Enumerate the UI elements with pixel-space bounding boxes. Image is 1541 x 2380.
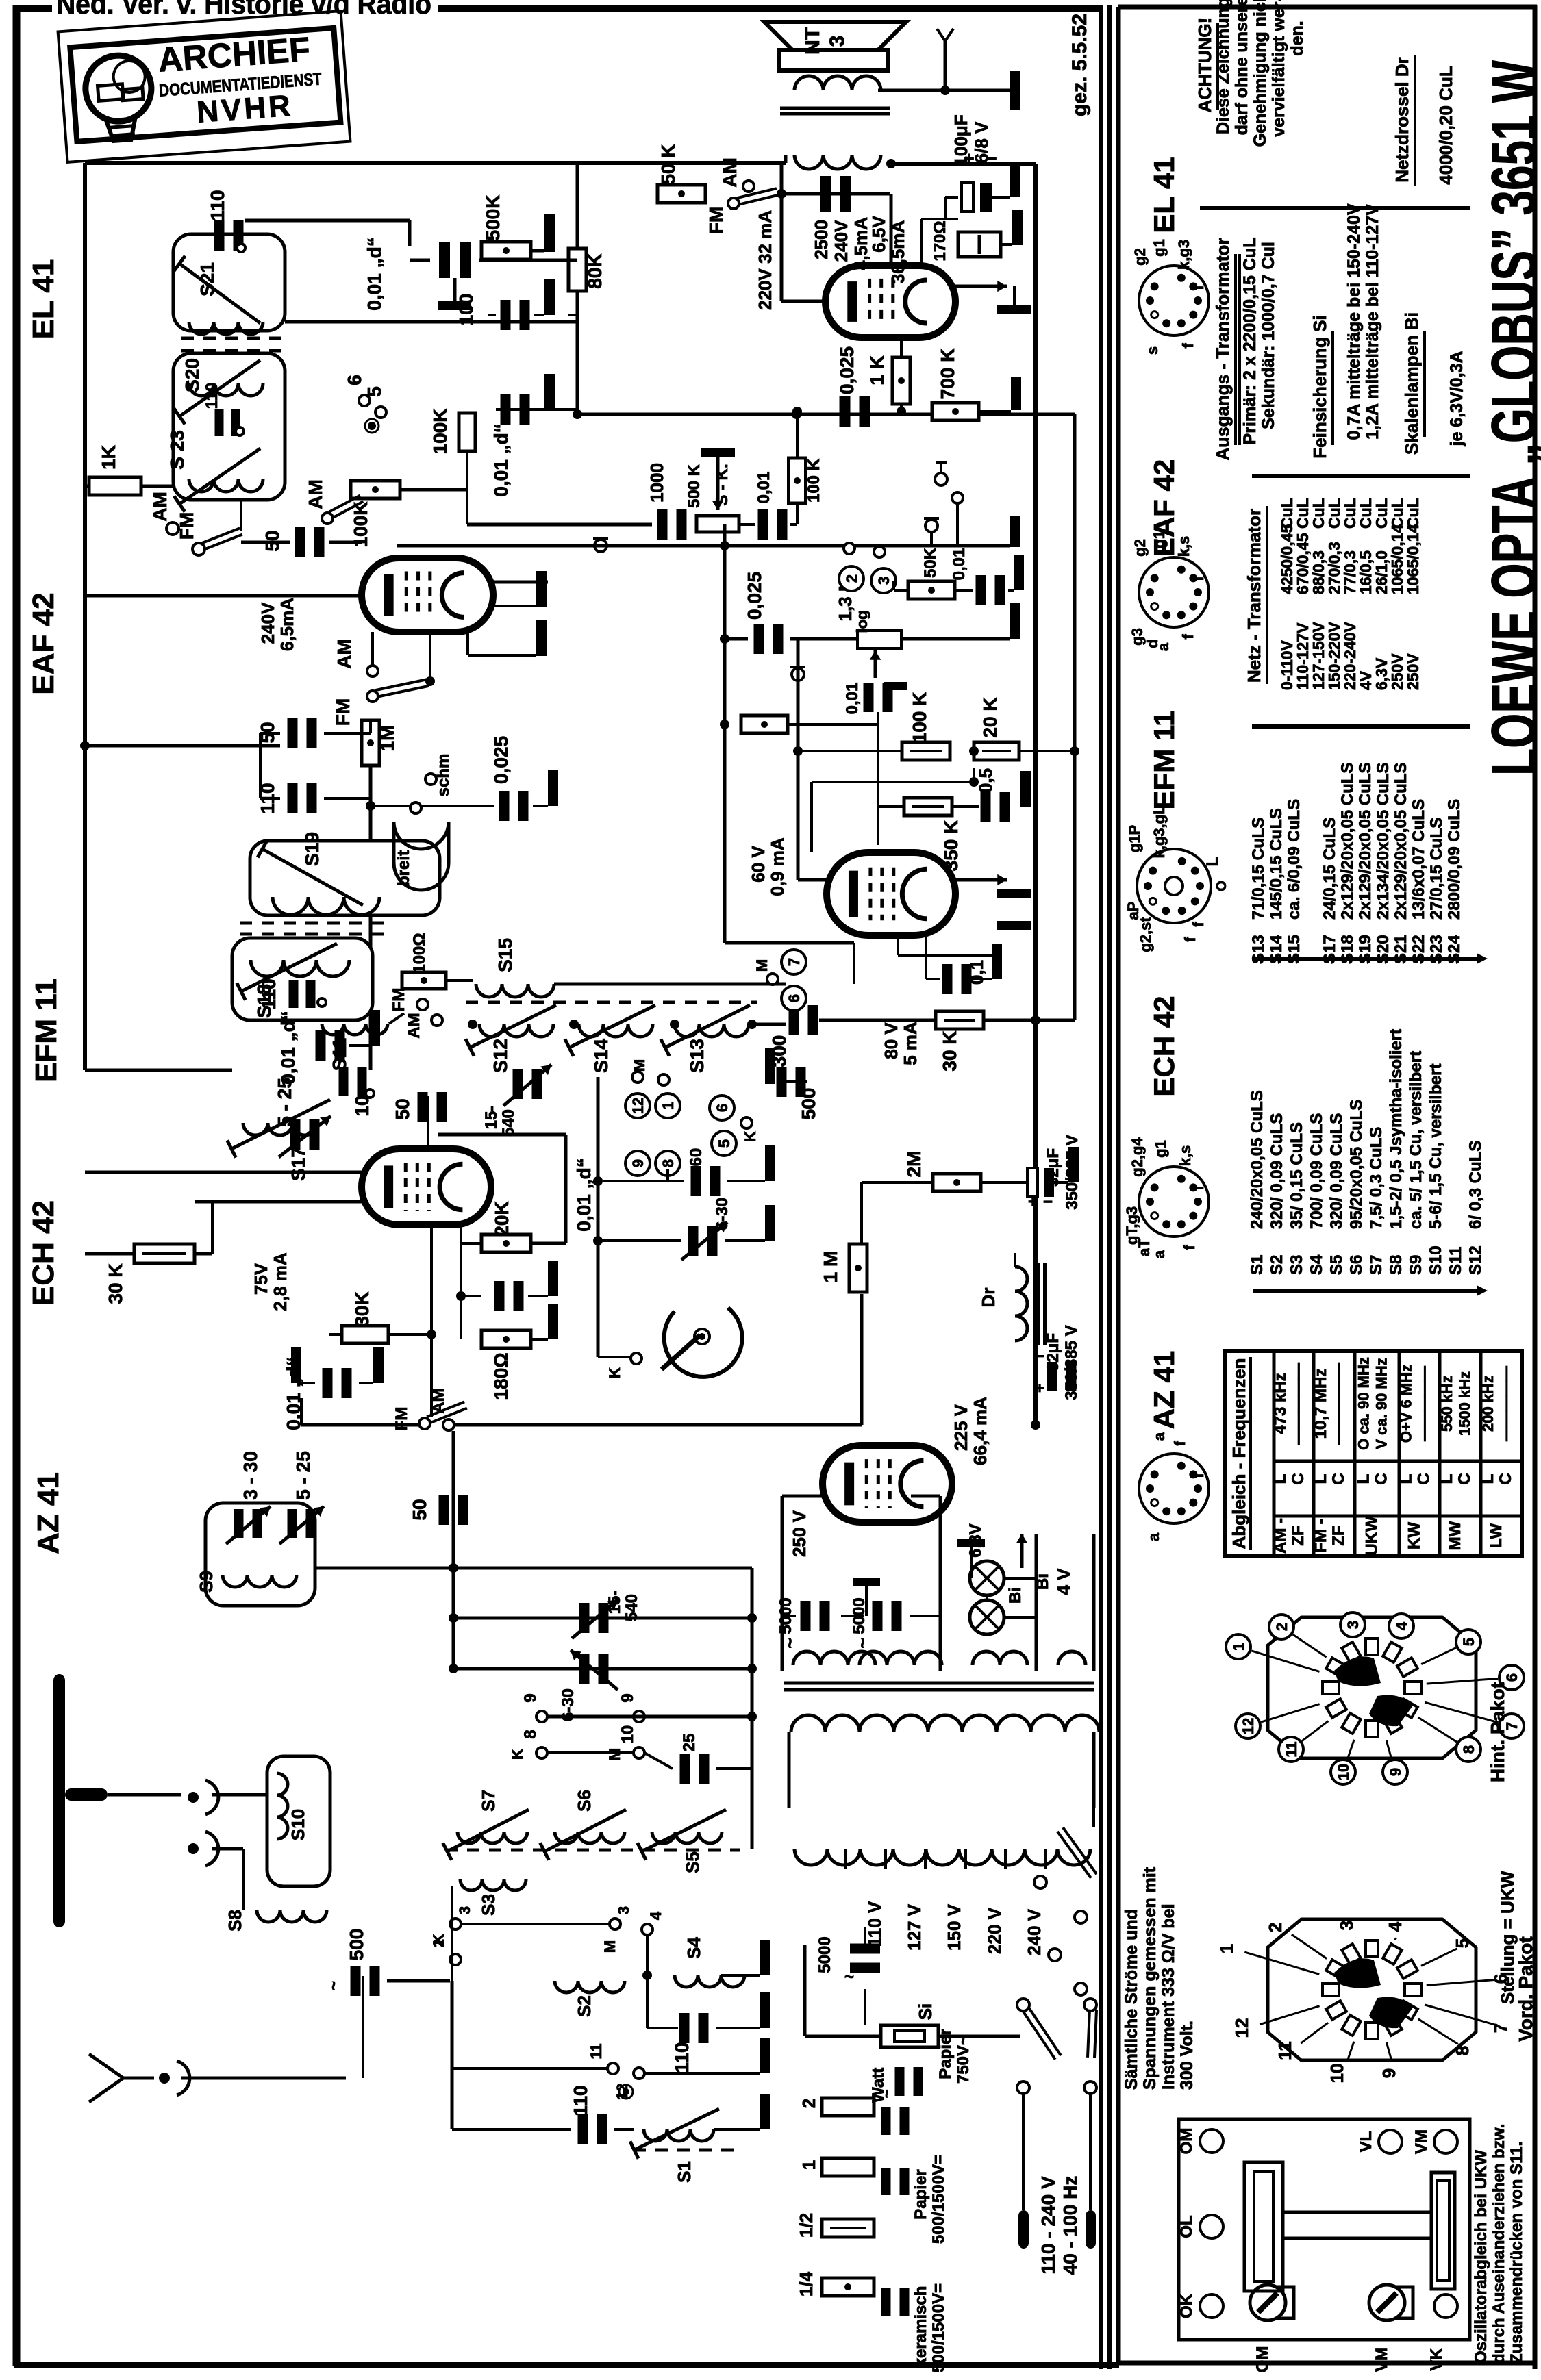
- svg-text:0,01: 0,01: [755, 472, 773, 504]
- svg-text:20 K: 20 K: [979, 697, 1001, 737]
- svg-text:2x129/20x0,05 CuLS: 2x129/20x0,05 CuLS: [1338, 763, 1357, 920]
- svg-text:32μF: 32μF: [1044, 1333, 1062, 1371]
- svg-text:320/ 0,09 CuLS: 320/ 0,09 CuLS: [1268, 1113, 1286, 1229]
- svg-text:g2,g4: g2,g4: [1129, 1137, 1146, 1177]
- svg-text:FM: FM: [390, 988, 408, 1012]
- svg-text:AZ 41: AZ 41: [1148, 1351, 1180, 1429]
- svg-text:a: a: [1145, 1532, 1162, 1541]
- svg-text:8: 8: [660, 1159, 677, 1167]
- svg-text:C: C: [1373, 1473, 1391, 1484]
- svg-text:3 - 30: 3 - 30: [240, 1451, 261, 1500]
- svg-text:3: 3: [875, 577, 892, 585]
- svg-text:Netzdrossel Dr: Netzdrossel Dr: [1392, 57, 1412, 183]
- svg-text:95/20x0,05 CuLS: 95/20x0,05 CuLS: [1347, 1100, 1366, 1229]
- svg-text:35/ 0,15 CuLS: 35/ 0,15 CuLS: [1288, 1122, 1306, 1229]
- svg-text:30K: 30K: [351, 1291, 373, 1326]
- svg-text:12: 12: [1231, 2018, 1252, 2038]
- svg-text:C: C: [1455, 1473, 1474, 1484]
- svg-text:110 V: 110 V: [864, 1901, 885, 1947]
- svg-text:O+V 6 MHz: O+V 6 MHz: [1398, 1365, 1415, 1443]
- svg-text:NVHR: NVHR: [196, 89, 295, 129]
- svg-text:S6: S6: [1347, 1255, 1366, 1275]
- svg-text:250V: 250V: [1404, 653, 1422, 690]
- svg-text:0,01 „d“: 0,01 „d“: [490, 423, 512, 496]
- svg-text:EFM 11: EFM 11: [29, 978, 63, 1083]
- svg-text:AZ 41: AZ 41: [32, 1472, 65, 1554]
- svg-text:110: 110: [570, 2085, 591, 2116]
- svg-text:4: 4: [647, 1911, 664, 1920]
- svg-text:1M: 1M: [377, 725, 398, 752]
- svg-text:0,025: 0,025: [744, 572, 765, 620]
- svg-text:320/ 0,09 CuLS: 320/ 0,09 CuLS: [1327, 1113, 1346, 1229]
- svg-text:100μF: 100μF: [951, 114, 971, 166]
- svg-text:66,4 mA: 66,4 mA: [970, 1397, 990, 1465]
- svg-text:9: 9: [618, 1693, 637, 1702]
- svg-text:ca. 6/0,09 CuLS: ca. 6/0,09 CuLS: [1285, 799, 1303, 920]
- svg-text:127 V: 127 V: [904, 1903, 925, 1951]
- svg-text:0,025: 0,025: [490, 736, 512, 784]
- svg-text:S8: S8: [1387, 1255, 1405, 1275]
- svg-text:100 K: 100 K: [909, 692, 930, 744]
- svg-text:7: 7: [786, 958, 803, 966]
- svg-text:1/4: 1/4: [796, 2271, 816, 2296]
- svg-text:9: 9: [1379, 2068, 1399, 2078]
- svg-text:k,g3: k,g3: [1175, 240, 1192, 270]
- svg-text:S20: S20: [181, 358, 203, 392]
- svg-text:S3: S3: [1288, 1255, 1306, 1275]
- svg-text:AM: AM: [305, 479, 326, 509]
- svg-text:220 V: 220 V: [984, 1907, 1005, 1954]
- svg-text:ca. 5/ 1,5 Cu, versilbert: ca. 5/ 1,5 Cu, versilbert: [1407, 1051, 1425, 1229]
- svg-text:C: C: [1329, 1473, 1348, 1484]
- svg-text:170Ω: 170Ω: [931, 220, 949, 261]
- svg-text:1,2A mittelträge bei 110-127V: 1,2A mittelträge bei 110-127V: [1363, 204, 1382, 440]
- svg-text:240/20x0,05 CuLS: 240/20x0,05 CuLS: [1248, 1090, 1266, 1229]
- svg-text:13/6x0,07 CuLS: 13/6x0,07 CuLS: [1410, 799, 1428, 920]
- svg-text:6: 6: [344, 375, 365, 385]
- svg-text:S17: S17: [288, 1147, 309, 1181]
- svg-text:f: f: [1181, 1245, 1198, 1250]
- svg-text:VM: VM: [1373, 2347, 1391, 2372]
- svg-text:S4: S4: [1307, 1254, 1326, 1275]
- svg-text:145/0,15 CuLS: 145/0,15 CuLS: [1267, 808, 1286, 920]
- svg-text:S11: S11: [329, 1038, 350, 1071]
- svg-text:schm: schm: [434, 754, 453, 797]
- svg-text:OK: OK: [1177, 2293, 1196, 2318]
- svg-text:M: M: [753, 959, 770, 972]
- svg-text:S13: S13: [686, 1039, 707, 1073]
- svg-text:0,025: 0,025: [836, 346, 857, 394]
- svg-text:FM: FM: [392, 1407, 411, 1431]
- svg-text:L: L: [1203, 857, 1222, 867]
- svg-text:6-30: 6-30: [713, 1198, 731, 1230]
- svg-text:25: 25: [680, 1734, 699, 1752]
- svg-text:LOEWE OPTA „GLOBUS” 3651 W: LOEWE OPTA „GLOBUS” 3651 W: [1478, 60, 1541, 776]
- svg-text:700/ 0,09 CuLS: 700/ 0,09 CuLS: [1307, 1113, 1326, 1229]
- svg-text:27/0,15 CuLS: 27/0,15 CuLS: [1427, 818, 1446, 920]
- svg-text:1065/0,14: 1065/0,14: [1404, 524, 1422, 594]
- svg-text:500K: 500K: [482, 195, 503, 241]
- svg-text:FM: FM: [705, 207, 727, 234]
- svg-text:110: 110: [207, 190, 228, 220]
- svg-text:FM: FM: [332, 698, 353, 726]
- svg-text:6,5mA: 6,5mA: [277, 598, 297, 651]
- svg-text:250 V: 250 V: [789, 1510, 810, 1557]
- svg-text:a: a: [1151, 1432, 1168, 1441]
- svg-text:8: 8: [521, 1730, 540, 1738]
- svg-text:300: 300: [768, 1035, 790, 1067]
- svg-text:+: +: [1036, 1380, 1044, 1397]
- svg-text:S1: S1: [674, 2161, 694, 2183]
- svg-text:4000/0,20 CuL: 4000/0,20 CuL: [1436, 66, 1456, 185]
- svg-text:O ca. 90 MHz: O ca. 90 MHz: [1355, 1357, 1373, 1450]
- svg-text:30 K: 30 K: [939, 1030, 960, 1071]
- svg-text:S7: S7: [1367, 1255, 1386, 1275]
- svg-text:g2,st: g2,st: [1137, 917, 1154, 952]
- svg-text:K: K: [509, 1749, 526, 1760]
- svg-text:L: L: [1355, 1474, 1373, 1484]
- svg-text:180Ω: 180Ω: [490, 1352, 512, 1400]
- svg-text:2: 2: [799, 2099, 819, 2108]
- svg-text:75V: 75V: [251, 1263, 271, 1295]
- svg-text:540: 540: [499, 1109, 518, 1137]
- svg-text:2: 2: [1273, 1623, 1290, 1631]
- svg-text:Ausgangs - Transformator: Ausgangs - Transformator: [1212, 238, 1233, 460]
- svg-text:S1: S1: [1248, 1255, 1266, 1275]
- svg-text:Sämtliche Ströme und: Sämtliche Ströme und: [1122, 1909, 1141, 2090]
- svg-text:f: f: [1190, 1473, 1207, 1478]
- svg-text:durch Auseinanderziehen bzw.: durch Auseinanderziehen bzw.: [1490, 2124, 1508, 2364]
- svg-text:Hint. Pakot: Hint. Pakot: [1487, 1682, 1508, 1782]
- svg-text:VM: VM: [1412, 2129, 1431, 2154]
- svg-text:S2: S2: [1268, 1255, 1286, 1275]
- svg-text:O: O: [1214, 881, 1229, 891]
- svg-text:3: 3: [1336, 1921, 1357, 1930]
- svg-text:0,01 „d“: 0,01 „d“: [364, 237, 385, 310]
- svg-text:15-: 15-: [605, 1591, 624, 1615]
- svg-text:—————: —————: [1497, 1366, 1514, 1441]
- svg-text:—————: —————: [1416, 1366, 1433, 1441]
- svg-text:11: 11: [1275, 2041, 1295, 2060]
- svg-text:12: 12: [629, 1098, 647, 1114]
- svg-text:EL 41: EL 41: [1148, 157, 1180, 233]
- svg-text:5 - 25: 5 - 25: [292, 1451, 314, 1500]
- svg-text:50: 50: [392, 1098, 413, 1119]
- svg-text:6,3V: 6,3V: [966, 1523, 985, 1557]
- svg-text:100K: 100K: [350, 502, 371, 548]
- svg-text:S12: S12: [490, 1039, 511, 1073]
- svg-text:110 - 240 V: 110 - 240 V: [1038, 2176, 1059, 2275]
- svg-text:3: 3: [826, 36, 849, 47]
- svg-text:Abgleich - Frequenzen: Abgleich - Frequenzen: [1229, 1358, 1249, 1549]
- svg-text:S12: S12: [1466, 1245, 1485, 1275]
- svg-text:700 K: 700 K: [937, 349, 958, 400]
- svg-text:darf ohne unsere: darf ohne unsere: [1232, 0, 1251, 135]
- svg-text:2: 2: [430, 1939, 447, 1947]
- svg-text:1K: 1K: [98, 445, 119, 470]
- svg-text:—————: —————: [1289, 1363, 1307, 1445]
- svg-text:20K: 20K: [491, 1201, 512, 1236]
- svg-text:1/2: 1/2: [796, 2213, 816, 2238]
- svg-text:7,5/ 0,3 CuLS: 7,5/ 0,3 CuLS: [1367, 1127, 1386, 1229]
- svg-text:240V: 240V: [831, 220, 851, 262]
- svg-text:30 K: 30 K: [105, 1263, 126, 1304]
- svg-text:L: L: [1271, 1474, 1290, 1484]
- svg-text:10,7 MHz: 10,7 MHz: [1312, 1369, 1330, 1439]
- svg-text:k,s: k,s: [1177, 1145, 1194, 1167]
- svg-text:S6: S6: [574, 1790, 594, 1812]
- svg-text:S19: S19: [301, 832, 323, 866]
- svg-text:6: 6: [786, 994, 803, 1002]
- svg-text:f: f: [1190, 1185, 1207, 1191]
- svg-text:2x134/20x0,05 CuLS: 2x134/20x0,05 CuLS: [1374, 763, 1392, 920]
- svg-text:f: f: [1179, 634, 1197, 640]
- svg-text:300 Volt.: 300 Volt.: [1177, 2021, 1197, 2090]
- svg-text:2x129/20x0,05 CuLS: 2x129/20x0,05 CuLS: [1392, 763, 1410, 920]
- svg-text:S11: S11: [1446, 1247, 1465, 1275]
- svg-text:5: 5: [716, 1139, 733, 1148]
- svg-text:5000: 5000: [816, 1936, 834, 1973]
- svg-text:S15: S15: [494, 938, 516, 972]
- svg-text:M: M: [631, 1059, 648, 1072]
- svg-text:S5: S5: [682, 1851, 703, 1873]
- svg-text:6: 6: [714, 1104, 731, 1112]
- svg-text:AM -: AM -: [1271, 1518, 1290, 1554]
- svg-text:f: f: [1190, 576, 1207, 581]
- svg-text:S10: S10: [1427, 1245, 1445, 1275]
- svg-text:4: 4: [1385, 1921, 1405, 1932]
- svg-text:f: f: [1190, 285, 1207, 290]
- svg-text:Instrument 333 Ω/V bei: Instrument 333 Ω/V bei: [1159, 1903, 1178, 2090]
- svg-text:4: 4: [1393, 1621, 1410, 1630]
- svg-text:V ca. 90 MHz: V ca. 90 MHz: [1373, 1358, 1390, 1449]
- svg-text:Spannungen gemessen mit: Spannungen gemessen mit: [1140, 1866, 1160, 2090]
- svg-text:100K: 100K: [429, 409, 451, 455]
- svg-text:Bi: Bi: [1006, 1587, 1025, 1604]
- svg-text:50: 50: [409, 1499, 430, 1520]
- svg-text:500: 500: [346, 1929, 367, 1961]
- svg-text:C: C: [1289, 1473, 1307, 1484]
- svg-text:breit: breit: [394, 850, 413, 886]
- svg-text:~: ~: [878, 2089, 895, 2098]
- svg-text:Diese Zeichnung: Diese Zeichnung: [1214, 0, 1233, 134]
- svg-text:12: 12: [1240, 1718, 1257, 1734]
- svg-text:S4: S4: [684, 1937, 704, 1959]
- svg-text:0,1: 0,1: [966, 960, 987, 985]
- svg-text:Vord. Pakot: Vord. Pakot: [1515, 1936, 1536, 2042]
- svg-text:240V: 240V: [258, 602, 278, 644]
- svg-text:K: K: [742, 1131, 759, 1142]
- svg-text:3: 3: [1344, 1621, 1362, 1629]
- svg-text:S7: S7: [478, 1790, 499, 1812]
- svg-text:M: M: [601, 1940, 618, 1953]
- svg-text:60: 60: [687, 1148, 705, 1167]
- svg-text:C: C: [1415, 1473, 1433, 1484]
- svg-text:2: 2: [843, 574, 860, 583]
- svg-text:2x129/20x0,05 CuLS: 2x129/20x0,05 CuLS: [1356, 763, 1375, 920]
- svg-text:5: 5: [1452, 1938, 1473, 1948]
- svg-text:60 V: 60 V: [748, 846, 768, 883]
- svg-text:AM: AM: [334, 639, 355, 669]
- svg-text:2M: 2M: [903, 1151, 925, 1178]
- svg-text:je 6,3V/0,3A: je 6,3V/0,3A: [1447, 351, 1466, 447]
- svg-text:−: −: [1043, 1193, 1053, 1211]
- svg-text:5 mA: 5 mA: [900, 1022, 920, 1065]
- svg-text:Si: Si: [915, 2003, 936, 2021]
- svg-text:g1: g1: [1152, 1140, 1169, 1158]
- svg-text:110: 110: [258, 978, 279, 1009]
- svg-text:1000: 1000: [647, 463, 667, 503]
- svg-text:500 K: 500 K: [685, 464, 703, 508]
- svg-text:Sekundär: 1000/0,7 Cul: Sekundär: 1000/0,7 Cul: [1259, 242, 1278, 429]
- svg-text:3: 3: [456, 1906, 473, 1914]
- svg-text:L: L: [1438, 1474, 1456, 1484]
- svg-text:Netz - Transformator: Netz - Transformator: [1244, 509, 1264, 683]
- svg-text:−: −: [1036, 1347, 1044, 1365]
- svg-text:EAF 42: EAF 42: [27, 592, 60, 694]
- svg-text:S21: S21: [197, 262, 218, 296]
- svg-text:k,g3,gL: k,g3,gL: [1151, 805, 1168, 858]
- svg-text:K: K: [606, 1367, 623, 1378]
- svg-text:ZF: ZF: [1329, 1526, 1348, 1545]
- svg-text:1: 1: [799, 2160, 819, 2170]
- svg-text:1500 kHz: 1500 kHz: [1456, 1371, 1473, 1436]
- svg-text:S9: S9: [196, 1571, 216, 1593]
- svg-text:OL: OL: [1177, 2215, 1196, 2238]
- svg-text:g2: g2: [1131, 248, 1149, 266]
- svg-text:8: 8: [1452, 2046, 1473, 2055]
- svg-text:~: ~: [852, 1638, 873, 1648]
- svg-text:L: L: [1312, 1474, 1330, 1484]
- svg-text:ZF: ZF: [1289, 1526, 1307, 1545]
- svg-text:~: ~: [844, 1968, 854, 1986]
- svg-text:S8: S8: [225, 1910, 245, 1932]
- svg-text:1: 1: [660, 1102, 677, 1110]
- svg-text:~: ~: [779, 1638, 800, 1648]
- svg-text:110: 110: [671, 2042, 692, 2073]
- svg-text:MW: MW: [1446, 1521, 1464, 1550]
- svg-text:a: a: [1151, 1250, 1168, 1258]
- svg-text:keramisch: keramisch: [912, 2286, 930, 2368]
- svg-text:80K: 80K: [584, 253, 605, 288]
- svg-text:225 V: 225 V: [951, 1404, 971, 1451]
- svg-text:0,5: 0,5: [975, 768, 996, 793]
- svg-text:500: 500: [798, 1088, 819, 1120]
- svg-text:200 kHz: 200 kHz: [1479, 1376, 1496, 1432]
- svg-text:6/ 0,3 CuLS: 6/ 0,3 CuLS: [1466, 1141, 1485, 1229]
- svg-text:VK: VK: [1427, 2348, 1446, 2371]
- svg-text:5: 5: [1460, 1638, 1477, 1646]
- svg-text:1: 1: [1216, 1944, 1237, 1953]
- svg-text:5 - 25: 5 - 25: [274, 1078, 295, 1127]
- svg-text:AM: AM: [149, 492, 171, 522]
- svg-text:Papier: Papier: [936, 2029, 955, 2079]
- svg-text:ACHTUNG!: ACHTUNG!: [1194, 18, 1215, 113]
- svg-text:1 M: 1 M: [820, 1251, 841, 1283]
- svg-text:f: f: [1190, 922, 1207, 927]
- svg-text:1,5-2/ 0,5 Jsymtha-isoliert: 1,5-2/ 0,5 Jsymtha-isoliert: [1387, 1029, 1405, 1229]
- svg-text:~: ~: [325, 1981, 343, 1990]
- svg-text:9: 9: [1387, 1768, 1404, 1776]
- svg-text:24/0,15 CuLS: 24/0,15 CuLS: [1320, 818, 1339, 920]
- svg-text:g1: g1: [1151, 239, 1168, 257]
- svg-text:g1: g1: [1151, 531, 1168, 548]
- svg-text:2500: 2500: [811, 220, 831, 259]
- svg-text:Genehmigung nicht: Genehmigung nicht: [1251, 0, 1270, 147]
- svg-text:9: 9: [629, 1159, 647, 1167]
- svg-text:L: L: [1397, 1474, 1416, 1484]
- svg-text:4 V: 4 V: [1053, 1568, 1074, 1595]
- svg-text:EFM 11: EFM 11: [1148, 711, 1180, 810]
- svg-text:Zusammendrücken von S11.: Zusammendrücken von S11.: [1507, 2142, 1526, 2364]
- svg-text:LW: LW: [1487, 1523, 1505, 1548]
- svg-text:gez. 5.5.52: gez. 5.5.52: [1068, 14, 1091, 116]
- svg-text:6: 6: [1503, 1673, 1520, 1682]
- svg-text:3: 3: [615, 1906, 632, 1914]
- svg-text:8: 8: [1460, 1745, 1477, 1754]
- svg-text:50 K: 50 K: [657, 144, 679, 184]
- svg-text:150 V: 150 V: [944, 1903, 964, 1951]
- svg-text:S2: S2: [574, 1995, 594, 2017]
- svg-text:10: 10: [1327, 2064, 1347, 2084]
- svg-text:ECH 42: ECH 42: [27, 1200, 60, 1306]
- svg-text:473 kHz: 473 kHz: [1271, 1373, 1290, 1434]
- svg-text:Skalenlampen Bi: Skalenlampen Bi: [1401, 312, 1422, 455]
- svg-text:1: 1: [1230, 1643, 1247, 1651]
- svg-text:EL 41: EL 41: [27, 259, 60, 340]
- svg-text:220V 32 mA: 220V 32 mA: [755, 210, 775, 310]
- svg-text:CuL: CuL: [1404, 498, 1422, 529]
- svg-text:500/1500V=: 500/1500V=: [929, 2283, 948, 2372]
- svg-text:2800/0,09 CuLS: 2800/0,09 CuLS: [1445, 799, 1464, 920]
- svg-text:f: f: [1181, 937, 1199, 942]
- svg-text:5: 5: [364, 386, 385, 397]
- svg-text:s: s: [1144, 346, 1161, 355]
- svg-text:2: 2: [1265, 1923, 1286, 1932]
- svg-text:100Ω: 100Ω: [410, 933, 429, 973]
- svg-text:VL: VL: [1357, 2131, 1375, 2153]
- svg-text:f: f: [1179, 343, 1197, 349]
- svg-text:S - K.: S - K.: [713, 464, 731, 505]
- svg-text:350 K: 350 K: [940, 820, 962, 872]
- svg-text:750V~: 750V~: [954, 2036, 973, 2084]
- svg-text:FM -: FM -: [1312, 1519, 1330, 1552]
- svg-text:40 - 100 Hz: 40 - 100 Hz: [1060, 2176, 1081, 2275]
- svg-text:0,7A mittelträge bei 150-240V: 0,7A mittelträge bei 150-240V: [1344, 203, 1364, 440]
- svg-text:S14: S14: [590, 1039, 612, 1073]
- svg-text:9: 9: [521, 1693, 540, 1702]
- svg-text:240 V: 240 V: [1024, 1908, 1044, 1955]
- svg-text:S 23: S 23: [166, 430, 188, 470]
- svg-text:k,s: k,s: [1175, 536, 1192, 557]
- svg-text:OM: OM: [1177, 2128, 1196, 2155]
- svg-text:1 K: 1 K: [866, 355, 888, 385]
- svg-text:Papier: Papier: [912, 2169, 930, 2219]
- svg-text:AM: AM: [719, 157, 740, 188]
- svg-text:100 K: 100 K: [805, 458, 823, 503]
- svg-text:S3: S3: [478, 1894, 499, 1916]
- svg-text:100: 100: [455, 294, 477, 326]
- svg-text:110: 110: [203, 383, 221, 409]
- svg-text:71/0,15 CuLS: 71/0,15 CuLS: [1249, 818, 1268, 920]
- svg-text:UKW: UKW: [1363, 1516, 1381, 1556]
- svg-text:550 kHz: 550 kHz: [1438, 1376, 1455, 1432]
- svg-text:50K: 50K: [921, 547, 940, 578]
- svg-text:a: a: [1155, 642, 1172, 651]
- svg-text:350/385 V: 350/385 V: [1062, 1325, 1081, 1400]
- svg-text:Feinsicherung Si: Feinsicherung Si: [1310, 315, 1330, 459]
- svg-text:S5: S5: [1327, 1255, 1346, 1275]
